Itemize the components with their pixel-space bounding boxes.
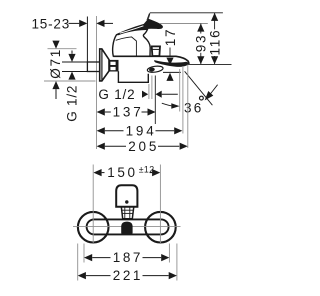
spout vertical extensions	[148, 84, 150, 99]
union block	[109, 60, 119, 72]
escutcheon circles	[78, 212, 109, 243]
svg-text:116: 116	[208, 29, 223, 56]
tangent line under outlet	[163, 71, 181, 73]
svg-text:36: 36	[184, 100, 203, 115]
dim G 1/2 (horizontal row)	[98, 87, 177, 102]
extension lines 187 / 221	[83, 244, 85, 263]
handle + cartridge cap	[113, 29, 151, 56]
dim 187	[84, 250, 169, 265]
svg-text:150: 150	[107, 165, 135, 180]
centerlines	[92, 165, 94, 244]
dim Ø71	[44, 41, 96, 99]
116 top reference line	[150, 12, 223, 14]
outlet oval	[147, 65, 163, 73]
svg-text:17: 17	[163, 28, 178, 47]
svg-text:221: 221	[113, 268, 141, 283]
dim 205	[97, 139, 188, 154]
diverter cup	[152, 46, 160, 56]
svg-text:137: 137	[113, 105, 141, 120]
dim 137	[97, 105, 156, 120]
body top line	[113, 56, 189, 64]
36 degree annotation	[162, 66, 218, 134]
svg-text:205: 205	[128, 139, 156, 154]
dim 93	[194, 24, 209, 65]
93 top reference line	[160, 23, 208, 25]
spout curve + dark underside crescent	[154, 60, 189, 67]
spout nose (dark)	[121, 222, 132, 234]
handle knob (front)	[116, 185, 137, 207]
escutcheon cone	[100, 49, 109, 81]
body bottom outline	[118, 71, 148, 82]
dim 221	[78, 268, 177, 283]
supply pipe stub	[87, 62, 99, 72]
svg-text:194: 194	[126, 123, 155, 138]
svg-text:G 1/2: G 1/2	[65, 85, 80, 122]
wall line	[96, 16, 98, 149]
dim 17	[163, 28, 178, 81]
dim G 1/2 (left, vertical)	[62, 51, 87, 122]
cartridge neck	[121, 207, 134, 219]
svg-text:187: 187	[113, 250, 141, 265]
dim 150 +/-12	[93, 164, 160, 180]
dim 116	[208, 13, 223, 65]
svg-text:15-23: 15-23	[32, 16, 71, 31]
svg-text:93: 93	[194, 34, 209, 53]
body capsule	[87, 219, 169, 234]
bottom reference line (spout level)	[187, 63, 232, 65]
svg-text:Ø71: Ø71	[48, 48, 63, 79]
dim 194	[97, 123, 183, 138]
dim 15-23	[32, 16, 114, 31]
pipe-end extension line	[86, 17, 88, 63]
svg-text:G 1/2: G 1/2	[98, 87, 135, 102]
